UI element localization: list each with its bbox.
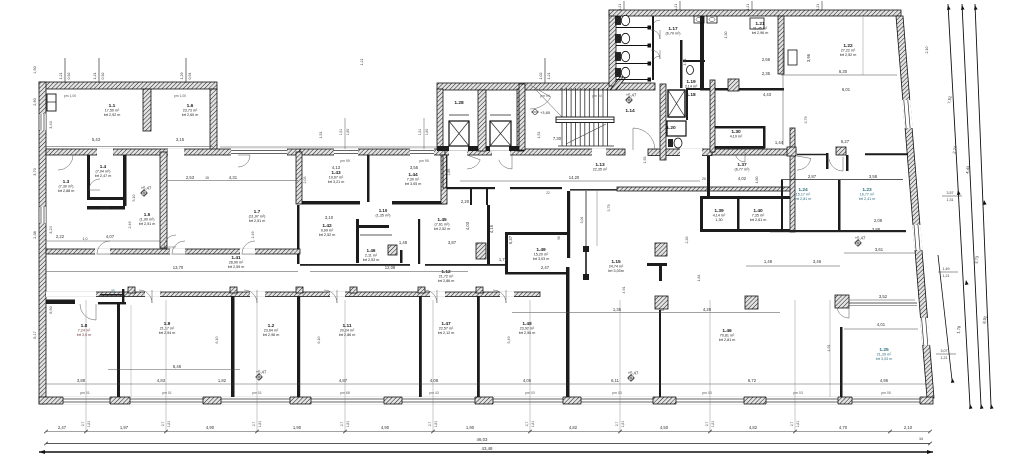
svg-text:4,70: 4,70 — [839, 425, 848, 430]
svg-text:70,81 m²: 70,81 m² — [720, 334, 735, 338]
svg-text:+5,47: +5,47 — [628, 371, 639, 376]
svg-text:3,58: 3,58 — [869, 174, 878, 179]
WC stall door arcs — [652, 20, 660, 28]
svg-text:15: 15 — [205, 176, 209, 180]
door openings in long wall — [231, 149, 287, 157]
svg-text:brt 2,96 m: brt 2,96 m — [752, 31, 769, 35]
svg-text:1,75: 1,75 — [499, 257, 508, 262]
stair run line — [566, 124, 606, 144]
outer wall top middle (over elevators+stairs) — [437, 83, 655, 90]
long wall y150 segment A — [46, 149, 300, 155]
svg-text:0,92: 0,92 — [101, 73, 105, 80]
svg-text:(1,35 m²): (1,35 m²) — [376, 214, 391, 218]
svg-text:brt 2,59 m: brt 2,59 m — [228, 265, 245, 269]
svg-text:4,14 m²: 4,14 m² — [713, 214, 726, 218]
column C6 (near 1.24 top) — [787, 147, 796, 156]
svg-text:+5,47: +5,47 — [626, 93, 637, 98]
svg-text:2,11 m²: 2,11 m² — [365, 254, 378, 258]
thin wall y154 segment a — [797, 154, 826, 156]
svg-text:brt 2,61 m: brt 2,61 m — [750, 218, 767, 222]
WC fixtures — [616, 15, 630, 77]
corridor 1.13 bottom wall seg2 — [617, 187, 793, 191]
pier between shafts — [478, 90, 486, 151]
door arc corridor to 1.47 — [424, 290, 437, 303]
svg-text:1,21: 1,21 — [618, 4, 622, 10]
window stub x424 — [423, 118, 425, 149]
column C3 — [745, 296, 758, 309]
svg-text:4,43: 4,43 — [763, 92, 772, 97]
svg-text:2,08: 2,08 — [874, 218, 883, 223]
svg-text:pm 03: pm 03 — [702, 391, 712, 395]
dim row1 line — [46, 431, 930, 433]
dim line 6,30 — [781, 74, 897, 76]
WC in room 1.19 — [687, 66, 694, 75]
wall between 1.21 and 1.22 — [778, 16, 784, 74]
svg-text:brt 2,94 m: brt 2,94 m — [159, 331, 176, 335]
stair corner diagonal wall — [610, 77, 626, 90]
svg-text:1,21: 1,21 — [816, 4, 820, 10]
svg-text:(1,90 m²): (1,90 m²) — [140, 218, 155, 222]
svg-text:1,81: 1,81 — [346, 421, 350, 428]
svg-text:brt 2,81 m: brt 2,81 m — [795, 197, 812, 201]
wall between 1.8 and 1.9 — [117, 304, 120, 397]
arrowheads on slanted dims — [947, 5, 951, 10]
svg-text:1,21: 1,21 — [547, 73, 551, 80]
svg-text:brt 2,12 m: brt 2,12 m — [438, 331, 455, 335]
dim line 14,20 — [460, 180, 700, 182]
radiator 1.22 — [788, 50, 797, 65]
column C5 (near 1.21) — [728, 79, 739, 91]
svg-text:1,48: 1,48 — [764, 259, 773, 264]
windows in bottom wall — [63, 397, 110, 405]
svg-text:1,21: 1,21 — [746, 4, 750, 10]
room 1.45 right wall — [487, 205, 490, 264]
wall stub x826 — [826, 153, 829, 169]
door arc corridor to 1.11 — [324, 290, 337, 303]
svg-text:1,81: 1,81 — [434, 421, 438, 428]
svg-text:27,22 m²: 27,22 m² — [841, 49, 856, 53]
svg-text:brt 2,52 m: brt 2,52 m — [840, 53, 857, 57]
svg-text:1,51: 1,51 — [339, 129, 343, 136]
svg-text:3,57: 3,57 — [947, 191, 954, 195]
svg-text:4,95: 4,95 — [880, 378, 889, 383]
svg-text:1,84: 1,84 — [697, 275, 701, 282]
svg-text:brt 2,51 m: brt 2,51 m — [139, 222, 156, 226]
svg-text:brt 2,96 m: brt 2,96 m — [263, 333, 280, 337]
svg-text:2,03: 2,03 — [303, 177, 307, 184]
svg-text:brt 2,86 m: brt 2,86 m — [339, 333, 356, 337]
svg-text:1,21: 1,21 — [941, 356, 948, 360]
thin wall y189 segment — [570, 189, 617, 191]
svg-text:22,35 m²: 22,35 m² — [593, 168, 608, 172]
wall under rooms 1.43-1.44 right — [392, 201, 445, 205]
thin wall x586 — [585, 191, 587, 246]
door arc room 1.25 — [837, 306, 849, 318]
svg-text:2,22: 2,22 — [56, 234, 65, 239]
svg-text:2,10: 2,10 — [904, 425, 913, 430]
svg-text:1.4: 1.4 — [100, 164, 107, 169]
svg-text:4,05: 4,05 — [523, 378, 532, 383]
door arc room 1.37 — [736, 152, 745, 162]
svg-text:1,82: 1,82 — [218, 378, 227, 383]
svg-text:3,07: 3,07 — [941, 349, 948, 353]
svg-text:13,70: 13,70 — [173, 265, 184, 270]
svg-text:6,10: 6,10 — [215, 337, 219, 344]
svg-text:2,47: 2,47 — [58, 425, 67, 430]
wall left of 1.37 — [707, 156, 710, 196]
svg-text:4,91: 4,91 — [622, 287, 626, 294]
level mark +5,47 — [627, 374, 635, 382]
svg-text:0,92: 0,92 — [67, 73, 71, 80]
svg-text:1,35: 1,35 — [613, 307, 622, 312]
svg-text:3,87: 3,87 — [448, 240, 457, 245]
svg-text:56: 56 — [557, 236, 561, 240]
overall dim line 2 (thick) — [39, 451, 933, 453]
svg-text:6,10: 6,10 — [317, 337, 321, 344]
corridor 1.13 bottom wall seg1 — [443, 187, 495, 189]
svg-text:1,49: 1,49 — [943, 267, 950, 271]
svg-text:pm 1,00: pm 1,00 — [174, 94, 186, 98]
svg-text:+5,47: +5,47 — [256, 370, 267, 375]
column C2 — [655, 296, 668, 309]
stair mid landing rail — [556, 117, 614, 123]
door openings corridor 1.41 top — [95, 249, 110, 255]
door arc corridor to 1.2 — [244, 290, 257, 303]
wall between 1.46 and 1.25 — [840, 327, 843, 397]
niche wall b above 1.8 — [98, 302, 126, 304]
svg-text:1,21: 1,21 — [674, 4, 678, 10]
door openings bottom rooms wall — [46, 292, 96, 297]
room 1.49 top wall — [505, 232, 569, 235]
bottom rooms top wall — [46, 292, 540, 297]
svg-text:5,17: 5,17 — [33, 331, 37, 338]
long wall y150 segment B (under rooms 1.43-1.44 windows) — [300, 149, 445, 155]
svg-text:1.28: 1.28 — [454, 100, 464, 106]
svg-text:2,35: 2,35 — [762, 71, 771, 76]
room 1.20 box — [667, 121, 686, 136]
svg-text:1,97: 1,97 — [120, 425, 129, 430]
svg-text:1,60: 1,60 — [755, 177, 759, 184]
svg-text:1,21: 1,21 — [360, 59, 364, 66]
dim line 3,52 — [849, 299, 915, 301]
long wall y150 segment C (elevator/stairs front) — [445, 149, 625, 155]
svg-text:2,53: 2,53 — [186, 175, 195, 180]
svg-text:pm 03: pm 03 — [612, 391, 622, 395]
svg-text:brt 3,03 m: brt 3,03 m — [533, 257, 550, 261]
svg-text:4,82: 4,82 — [749, 425, 758, 430]
room 1.4 right wall — [123, 155, 127, 206]
svg-text:3,88: 3,88 — [77, 378, 86, 383]
vert dim line x783 — [782, 48, 784, 145]
svg-text:2,7: 2,7 — [615, 422, 619, 427]
svg-text:4,01: 4,01 — [877, 322, 886, 327]
niche wall a above 1.8 — [100, 294, 124, 296]
room 1.30 bottom wall — [715, 146, 765, 149]
svg-text:1,50: 1,50 — [33, 66, 37, 73]
wall stub x846 — [846, 155, 849, 171]
svg-text:brt 2,60 m: brt 2,60 m — [182, 113, 199, 117]
svg-text:+3,85: +3,85 — [540, 110, 551, 115]
svg-text:4,28: 4,28 — [703, 307, 712, 312]
svg-text:brt 2,52 m: brt 2,52 m — [319, 233, 336, 237]
svg-text:3,15: 3,15 — [176, 137, 185, 142]
elevator shaft 1 — [449, 121, 469, 146]
wall left of 1.21 — [700, 16, 704, 90]
svg-text:pm 01: pm 01 — [80, 391, 90, 395]
svg-text:2,7: 2,7 — [790, 422, 794, 427]
WC sinks — [694, 16, 704, 23]
stub x680 — [679, 1, 681, 10]
svg-text:4,07: 4,07 — [106, 234, 115, 239]
svg-text:22,57 m²: 22,57 m² — [439, 327, 454, 331]
door arc stairs — [530, 85, 551, 109]
sub-wall 1.18 top — [688, 88, 710, 90]
svg-text:5,43: 5,43 — [92, 137, 101, 142]
svg-text:1,81: 1,81 — [711, 421, 715, 428]
svg-text:19,67 m²: 19,67 m² — [329, 176, 344, 180]
outer wall top-left block — [39, 82, 217, 89]
svg-text:brt 3,03 m: brt 3,03 m — [876, 357, 893, 361]
svg-text:1,81: 1,81 — [621, 421, 625, 428]
door arc corridor top 3 — [242, 241, 255, 254]
wall under 1.10 — [400, 250, 403, 263]
svg-text:4,08: 4,08 — [430, 378, 439, 383]
dim line y147 mid — [220, 146, 437, 148]
svg-text:+5,47: +5,47 — [855, 236, 866, 241]
elevator shaft 2 — [490, 121, 511, 146]
svg-text:2,90: 2,90 — [33, 98, 37, 105]
door arc room 1.8 entry — [80, 304, 96, 320]
stub x545 — [544, 58, 546, 83]
svg-text:21,39 m²: 21,39 m² — [877, 353, 892, 357]
svg-text:1,89: 1,89 — [447, 169, 451, 176]
svg-text:7,24 m²: 7,24 m² — [78, 329, 91, 333]
svg-text:1.46: 1.46 — [367, 248, 376, 253]
svg-text:1,51: 1,51 — [319, 132, 323, 139]
big door arc lobby 1.14 — [633, 128, 655, 150]
dim line y241 — [46, 240, 160, 242]
svg-text:1.10: 1.10 — [379, 208, 388, 213]
corridor west wall stub — [443, 155, 447, 188]
svg-text:20: 20 — [702, 177, 706, 181]
svg-text:2,7: 2,7 — [161, 422, 165, 427]
svg-text:20,24 m²: 20,24 m² — [340, 329, 355, 333]
svg-text:4,31: 4,31 — [229, 175, 238, 180]
room 1.4 bottom wall — [87, 197, 125, 200]
wall right of stairs / lobby 1.14 — [660, 84, 666, 160]
svg-text:brt 2,51 m: brt 2,51 m — [249, 219, 266, 223]
bottom line 1.24/1.23 — [770, 230, 906, 232]
wall left of room 1.43 — [296, 152, 302, 204]
thin wall y154 segment b — [865, 153, 908, 155]
svg-text:23,64 m²: 23,64 m² — [264, 329, 279, 333]
svg-text:12,08: 12,08 — [385, 265, 396, 270]
svg-text:2,49: 2,49 — [251, 232, 255, 239]
long wall y150 segment E — [712, 149, 796, 155]
room 1.49 bottom wall — [505, 272, 569, 275]
svg-text:46,03: 46,03 — [477, 437, 489, 442]
svg-text:3,06: 3,06 — [580, 217, 584, 224]
svg-text:1,0: 1,0 — [83, 237, 88, 241]
wall right side of room 1.6 — [210, 89, 217, 153]
wall right of rooms 1.3-1.5 — [160, 152, 167, 248]
svg-text:brt 3,03m: brt 3,03m — [608, 269, 624, 273]
stub x65 — [64, 58, 66, 83]
svg-text:6,30: 6,30 — [839, 69, 848, 74]
svg-text:pm 1,00: pm 1,00 — [64, 94, 76, 98]
svg-text:6,50: 6,50 — [49, 306, 53, 313]
room 1.30 right wall — [763, 126, 766, 148]
svg-text:3,61: 3,61 — [875, 247, 884, 252]
svg-text:1,21: 1,21 — [93, 73, 97, 80]
svg-text:(7,04 m²): (7,04 m²) — [96, 170, 111, 174]
svg-text:23,73 m²: 23,73 m² — [183, 109, 198, 113]
svg-text:95: 95 — [111, 289, 115, 293]
svg-text:1,90: 1,90 — [466, 425, 475, 430]
slanted dimension chains right side — [948, 4, 970, 406]
svg-text:6,11: 6,11 — [611, 378, 620, 383]
stub x822 — [821, 1, 823, 10]
svg-text:21,17 m²: 21,17 m² — [160, 327, 175, 331]
elevator block right wall — [517, 89, 524, 151]
stub x624 — [623, 1, 625, 10]
svg-text:4,19 m²: 4,19 m² — [730, 135, 743, 139]
wall between 1.9 and 1.2 — [231, 296, 235, 397]
svg-text:pm 95: pm 95 — [340, 159, 350, 163]
svg-text:brt 2,52 m: brt 2,52 m — [434, 227, 451, 231]
wall left of 1.39 — [700, 199, 703, 229]
svg-text:65: 65 — [660, 308, 664, 312]
radiator bar room 1.46 — [359, 225, 389, 228]
svg-text:2,38: 2,38 — [33, 231, 37, 238]
dim line 3,46 — [746, 265, 840, 267]
svg-text:4,91: 4,91 — [827, 345, 831, 352]
column C7 (near 1.23 top) — [836, 147, 846, 155]
wall 1.18 left — [686, 88, 688, 120]
svg-text:1.14: 1.14 — [625, 108, 635, 114]
svg-text:7,30 m²: 7,30 m² — [407, 178, 420, 182]
door arc corridor to 1.9 — [139, 290, 152, 303]
svg-text:1,30: 1,30 — [724, 32, 728, 39]
wall between 1.11 and 1.47 — [419, 296, 422, 397]
svg-text:6,72: 6,72 — [748, 378, 757, 383]
svg-text:14,20: 14,20 — [569, 175, 580, 180]
svg-text:1,81: 1,81 — [87, 421, 91, 428]
corridor 1.41 top edge right part — [300, 264, 410, 266]
dim line y384 — [46, 383, 930, 385]
svg-text:4,02: 4,02 — [738, 176, 747, 181]
room 1.30 top wall — [715, 126, 765, 129]
svg-text:1,80: 1,80 — [346, 129, 350, 136]
svg-text:6,46: 6,46 — [173, 364, 182, 369]
wall right of WC block — [680, 40, 683, 88]
dim line y312 — [512, 312, 780, 314]
svg-text:1.20: 1.20 — [666, 125, 676, 131]
wall between 1.2 and 1.11 — [297, 296, 300, 397]
outer wall left — [39, 82, 46, 404]
door arc room 1.3 — [58, 155, 73, 170]
elevator shaft 3 — [668, 90, 685, 117]
dim guide x131 — [130, 305, 132, 397]
svg-text:4,87: 4,87 — [339, 378, 348, 383]
dim line x597 — [596, 191, 598, 246]
room 1.18/1.19 walls — [683, 60, 705, 62]
svg-text:1,90: 1,90 — [293, 425, 302, 430]
dim line y369 — [108, 369, 240, 371]
partition stub room 1.15 — [585, 248, 587, 278]
door arc WC entry 2 — [651, 50, 660, 59]
wall left of WC block — [609, 10, 616, 86]
wall room 1.8 north — [46, 300, 75, 305]
shelf line room 1.46 — [360, 234, 392, 236]
svg-text:3,24: 3,24 — [49, 226, 53, 233]
stub wall x471 — [470, 189, 472, 205]
svg-text:2,26: 2,26 — [685, 237, 689, 244]
svg-text:7,35 m²: 7,35 m² — [752, 214, 765, 218]
svg-text:4,82: 4,82 — [569, 425, 578, 430]
svg-text:22: 22 — [546, 191, 550, 195]
niche wall c above 1.8 — [122, 289, 124, 304]
svg-text:24,74 m²: 24,74 m² — [609, 265, 624, 269]
wall left of elevator shaft — [437, 89, 443, 151]
dim line y146 — [46, 146, 213, 148]
level mark +5,47 — [854, 239, 862, 247]
svg-text:4,83: 4,83 — [157, 378, 166, 383]
svg-text:1,51: 1,51 — [537, 132, 541, 139]
svg-text:pm 03: pm 03 — [793, 391, 803, 395]
door leaf 1.46 — [388, 245, 397, 255]
door arc elevator 2 — [499, 155, 512, 169]
svg-text:15,17 m²: 15,17 m² — [796, 193, 811, 197]
svg-text:5,10: 5,10 — [132, 195, 136, 202]
svg-text:2,7: 2,7 — [428, 422, 432, 427]
svg-text:1,02: 1,02 — [539, 73, 543, 80]
svg-text:1,44: 1,44 — [775, 140, 784, 145]
svg-text:1,51: 1,51 — [418, 129, 422, 136]
svg-text:2,47: 2,47 — [541, 265, 550, 270]
svg-text:brt 2,81 m: brt 2,81 m — [719, 338, 736, 342]
svg-text:3,43: 3,43 — [49, 121, 53, 128]
windows in left wall — [39, 114, 45, 130]
svg-text:4,03: 4,03 — [465, 221, 470, 230]
room 1.5 partition — [87, 206, 125, 210]
corridor 1.41 top wall — [46, 249, 300, 254]
svg-text:1,29: 1,29 — [180, 73, 184, 80]
partition line y305 right section — [849, 305, 917, 307]
svg-text:3,52: 3,52 — [879, 294, 888, 299]
outer wall top right — [609, 10, 901, 16]
svg-text:pm 94: pm 94 — [540, 94, 550, 98]
column C1 — [655, 243, 667, 256]
svg-text:43,48: 43,48 — [482, 446, 494, 451]
door arc corridor to 1.48 — [493, 290, 506, 303]
svg-text:28,90 m²: 28,90 m² — [229, 261, 244, 265]
outer wall right (slanted) — [896, 16, 934, 398]
stub x186 — [185, 58, 187, 83]
svg-text:pm 05: pm 05 — [881, 391, 891, 395]
room 1.42 left wall — [297, 205, 300, 264]
wall right of 1.37/1.40 — [790, 128, 795, 232]
svg-text:7,30: 7,30 — [553, 136, 562, 141]
svg-text:4,16: 4,16 — [489, 224, 494, 233]
svg-text:1.5: 1.5 — [144, 212, 151, 217]
door arc room 1.23 entry — [829, 157, 843, 171]
svg-text:34: 34 — [919, 437, 923, 441]
svg-text:3,46: 3,46 — [813, 259, 822, 264]
svg-text:4,50: 4,50 — [660, 425, 669, 430]
svg-text:3,79: 3,79 — [607, 205, 611, 212]
svg-text:pm 95: pm 95 — [419, 159, 429, 163]
